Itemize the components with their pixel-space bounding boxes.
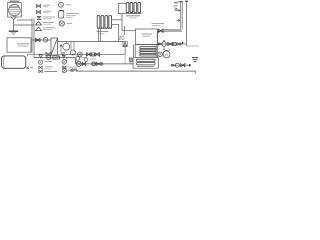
bottom right elbow down xyxy=(195,71,197,74)
valve on pipe y30.8 xyxy=(159,29,164,33)
branch col B valve1 xyxy=(63,66,66,69)
pipe y57.6 tank to pumps xyxy=(34,57,76,59)
motor valve g3 xyxy=(168,42,173,45)
pump pair circle small xyxy=(158,52,163,57)
radiator R1 supply elbow xyxy=(118,2,126,4)
pipe y65.2 drain run xyxy=(171,64,190,66)
valve h1 xyxy=(82,62,85,65)
triangle fitting on pipe xyxy=(39,55,43,58)
legend valve V-d xyxy=(36,22,42,26)
riser pipe rad2 A xyxy=(97,28,99,41)
legend triangle T-e xyxy=(36,27,42,31)
air vent cluster xyxy=(174,2,178,5)
riser coil left B xyxy=(134,45,136,58)
pump on pipe xyxy=(47,55,51,59)
gray label above valve xyxy=(152,23,165,25)
pump pair circle big xyxy=(163,51,170,58)
valve d3 xyxy=(181,64,185,67)
riser top right cap xyxy=(179,1,184,3)
mixing tank with diagonal xyxy=(51,38,58,55)
riser coil right double xyxy=(156,31,157,57)
tank fitting bottom right xyxy=(27,67,30,70)
pump circle P1 xyxy=(63,43,70,50)
boiler B1 xyxy=(7,38,31,52)
valve h5 xyxy=(96,62,101,65)
valve g1 xyxy=(159,43,162,46)
thermometer stem xyxy=(60,45,62,53)
small triangle under thermometer xyxy=(62,53,65,56)
pipe y44.6 to pump group right xyxy=(135,44,157,46)
wire pipe y25 to riser xyxy=(14,24,34,26)
branch col B gauge xyxy=(62,60,67,65)
radiator R2 xyxy=(97,16,100,29)
riser pipe rad1 supply xyxy=(117,3,119,13)
small pump above elbow xyxy=(76,56,80,60)
legend gauge G-a xyxy=(59,2,64,7)
riser top right double A xyxy=(180,2,182,29)
coil bar 3 xyxy=(140,52,156,54)
elbow from riser to tank pipe xyxy=(33,54,35,57)
svg-text:20: 20 xyxy=(118,36,124,42)
legend valve V-a xyxy=(37,5,41,8)
legend valve V-b xyxy=(37,11,41,14)
radiator R1 xyxy=(126,3,129,13)
radiator R2 pipe upper right xyxy=(112,19,122,21)
pump circle g2 xyxy=(162,42,167,47)
expansion vessel EV1 body xyxy=(8,3,22,18)
coil bar 1 xyxy=(140,47,156,49)
riser rad2 lower branch xyxy=(118,25,120,42)
lower coil box xyxy=(133,57,159,68)
arrowhead to drain xyxy=(189,64,192,67)
pump P3 on y64.5 xyxy=(76,61,81,66)
expansion vessel EV1 gauge circle xyxy=(9,4,21,16)
flow arrow b xyxy=(176,19,180,21)
riser coil left A xyxy=(133,45,135,58)
radiator R2 pipe lower right xyxy=(112,24,119,26)
valve d1 xyxy=(172,64,175,67)
gauge on boiler top pipe xyxy=(43,38,48,43)
legend valve V-c xyxy=(37,17,41,20)
supply pipe y41.5 xyxy=(58,41,124,43)
drain symbol xyxy=(192,57,198,59)
wire return to box xyxy=(122,30,136,32)
pipe y30.8 double from box to right riser xyxy=(164,29,182,31)
coil bar 2 xyxy=(140,49,156,51)
strainer box on pipe xyxy=(53,56,60,59)
expansion vessel EV1 bottom funnel xyxy=(11,17,17,20)
valve on lower pipe xyxy=(46,52,51,56)
riser pipe left A xyxy=(31,19,33,53)
second small circle xyxy=(84,58,88,62)
circle h2 xyxy=(92,62,96,66)
branch col A gauge xyxy=(38,60,42,64)
wire pipe y20 to riser xyxy=(17,19,32,21)
small triangle fitting xyxy=(62,55,65,58)
drain stem wire xyxy=(13,20,15,31)
riser far right xyxy=(186,1,188,46)
radiator R2 label xyxy=(97,31,109,33)
pipe y44 right pump group xyxy=(158,43,186,45)
riser top right double B xyxy=(181,2,183,29)
tank top stub A xyxy=(27,54,29,56)
elbow tick xyxy=(183,42,184,44)
small circle g4 xyxy=(173,42,176,45)
faint line right edge xyxy=(187,45,200,47)
pipe y64.5 lower pump row xyxy=(76,63,134,65)
motor valve on pipe end xyxy=(129,58,132,61)
bold label dash xyxy=(71,69,78,71)
expansion vessel EV1 top cap xyxy=(11,1,19,3)
branch col B valve2 xyxy=(62,69,66,73)
bottom long pipe y70.9 xyxy=(76,70,196,72)
riser pipe rad1 return xyxy=(121,14,123,31)
legend vessel xyxy=(59,9,64,12)
circle d2 xyxy=(175,63,179,67)
riser below check valve xyxy=(124,47,126,55)
pump with X xyxy=(77,52,82,57)
elbow pipe down x75.5 xyxy=(75,58,77,64)
coil bar 4 xyxy=(140,54,156,56)
valve on boiler top pipe xyxy=(36,38,41,41)
legend pump P-a xyxy=(59,21,64,26)
boiler top pipe y40 xyxy=(32,39,51,41)
riser stub x124.3 upper xyxy=(123,26,125,35)
tick h6 xyxy=(102,63,104,65)
zone box with label xyxy=(136,29,158,45)
flow arrow a xyxy=(177,9,181,11)
small circle pump P2 xyxy=(71,50,76,55)
radiator R1 bottom pipe xyxy=(118,13,141,15)
check valve box with triangle xyxy=(123,42,127,47)
expansion loop xyxy=(71,42,74,51)
branch col A valve2 xyxy=(39,70,42,73)
valve g5 xyxy=(177,43,181,46)
branch col A valve1 xyxy=(39,66,42,69)
radiator R1 label xyxy=(126,15,140,17)
pipe y54.5 pump row xyxy=(58,53,126,55)
riser pipe rad2 B xyxy=(99,28,101,41)
tank TK1 xyxy=(2,56,26,68)
riser pipe left B xyxy=(33,19,35,55)
drain ground bar xyxy=(9,30,18,32)
valve pair with circle xyxy=(87,53,92,57)
lower boiler pipe y53.7 xyxy=(28,53,46,55)
lower coil serpentine xyxy=(137,59,156,61)
